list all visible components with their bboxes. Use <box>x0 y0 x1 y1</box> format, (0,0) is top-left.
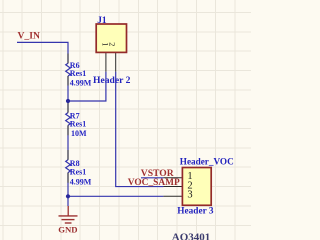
resistor R6 <box>66 63 71 76</box>
svg-text:V_IN: V_IN <box>18 30 40 41</box>
J1 pin 1 stub <box>105 52 107 71</box>
Header pin 2 stub <box>163 186 182 188</box>
wire node A to J1 pin 1 <box>68 72 106 101</box>
wire R7 to R8 <box>67 125 69 159</box>
wire VSTOR stub to Header pin 1 <box>141 177 163 179</box>
svg-text:4.99M: 4.99M <box>70 177 92 186</box>
resistor pin stubs (black) <box>67 54 69 183</box>
resistor R8 <box>66 160 71 173</box>
resistor R7 <box>66 113 71 126</box>
Header pin 1 stub <box>163 177 182 179</box>
svg-text:Header 3: Header 3 <box>177 207 214 217</box>
ground GND <box>59 206 78 223</box>
J1 pin 2 stub <box>115 52 117 71</box>
svg-text:2: 2 <box>107 42 116 46</box>
svg-text:Header 2: Header 2 <box>93 75 131 86</box>
svg-text:10M: 10M <box>71 129 87 138</box>
wire R6 to R7 <box>67 76 69 113</box>
junction node B <box>66 194 70 198</box>
svg-text:Res1: Res1 <box>70 69 86 78</box>
svg-text:Res1: Res1 <box>70 120 86 129</box>
junction node A <box>66 99 70 103</box>
svg-text:AO3401: AO3401 <box>172 232 211 240</box>
svg-text:VOC_SAMP: VOC_SAMP <box>128 178 180 188</box>
wire V_IN horizontal then down to R6 <box>17 42 68 63</box>
wire node B to Header pin 3 <box>68 195 163 197</box>
connector Header_VOC body <box>182 168 211 206</box>
connector J1 body <box>96 24 126 52</box>
svg-text:3: 3 <box>187 189 192 200</box>
svg-text:4.99M: 4.99M <box>70 78 92 87</box>
svg-text:Res1: Res1 <box>70 168 86 177</box>
svg-text:Header_VOC: Header_VOC <box>180 156 234 166</box>
svg-text:J1: J1 <box>97 16 107 26</box>
wire R8 to GND <box>67 173 69 206</box>
sheet background <box>0 0 251 240</box>
svg-text:GND: GND <box>58 224 77 234</box>
Header pin 3 stub <box>163 195 182 197</box>
wire J1 pin 2 to Header pin 2 <box>116 72 164 187</box>
